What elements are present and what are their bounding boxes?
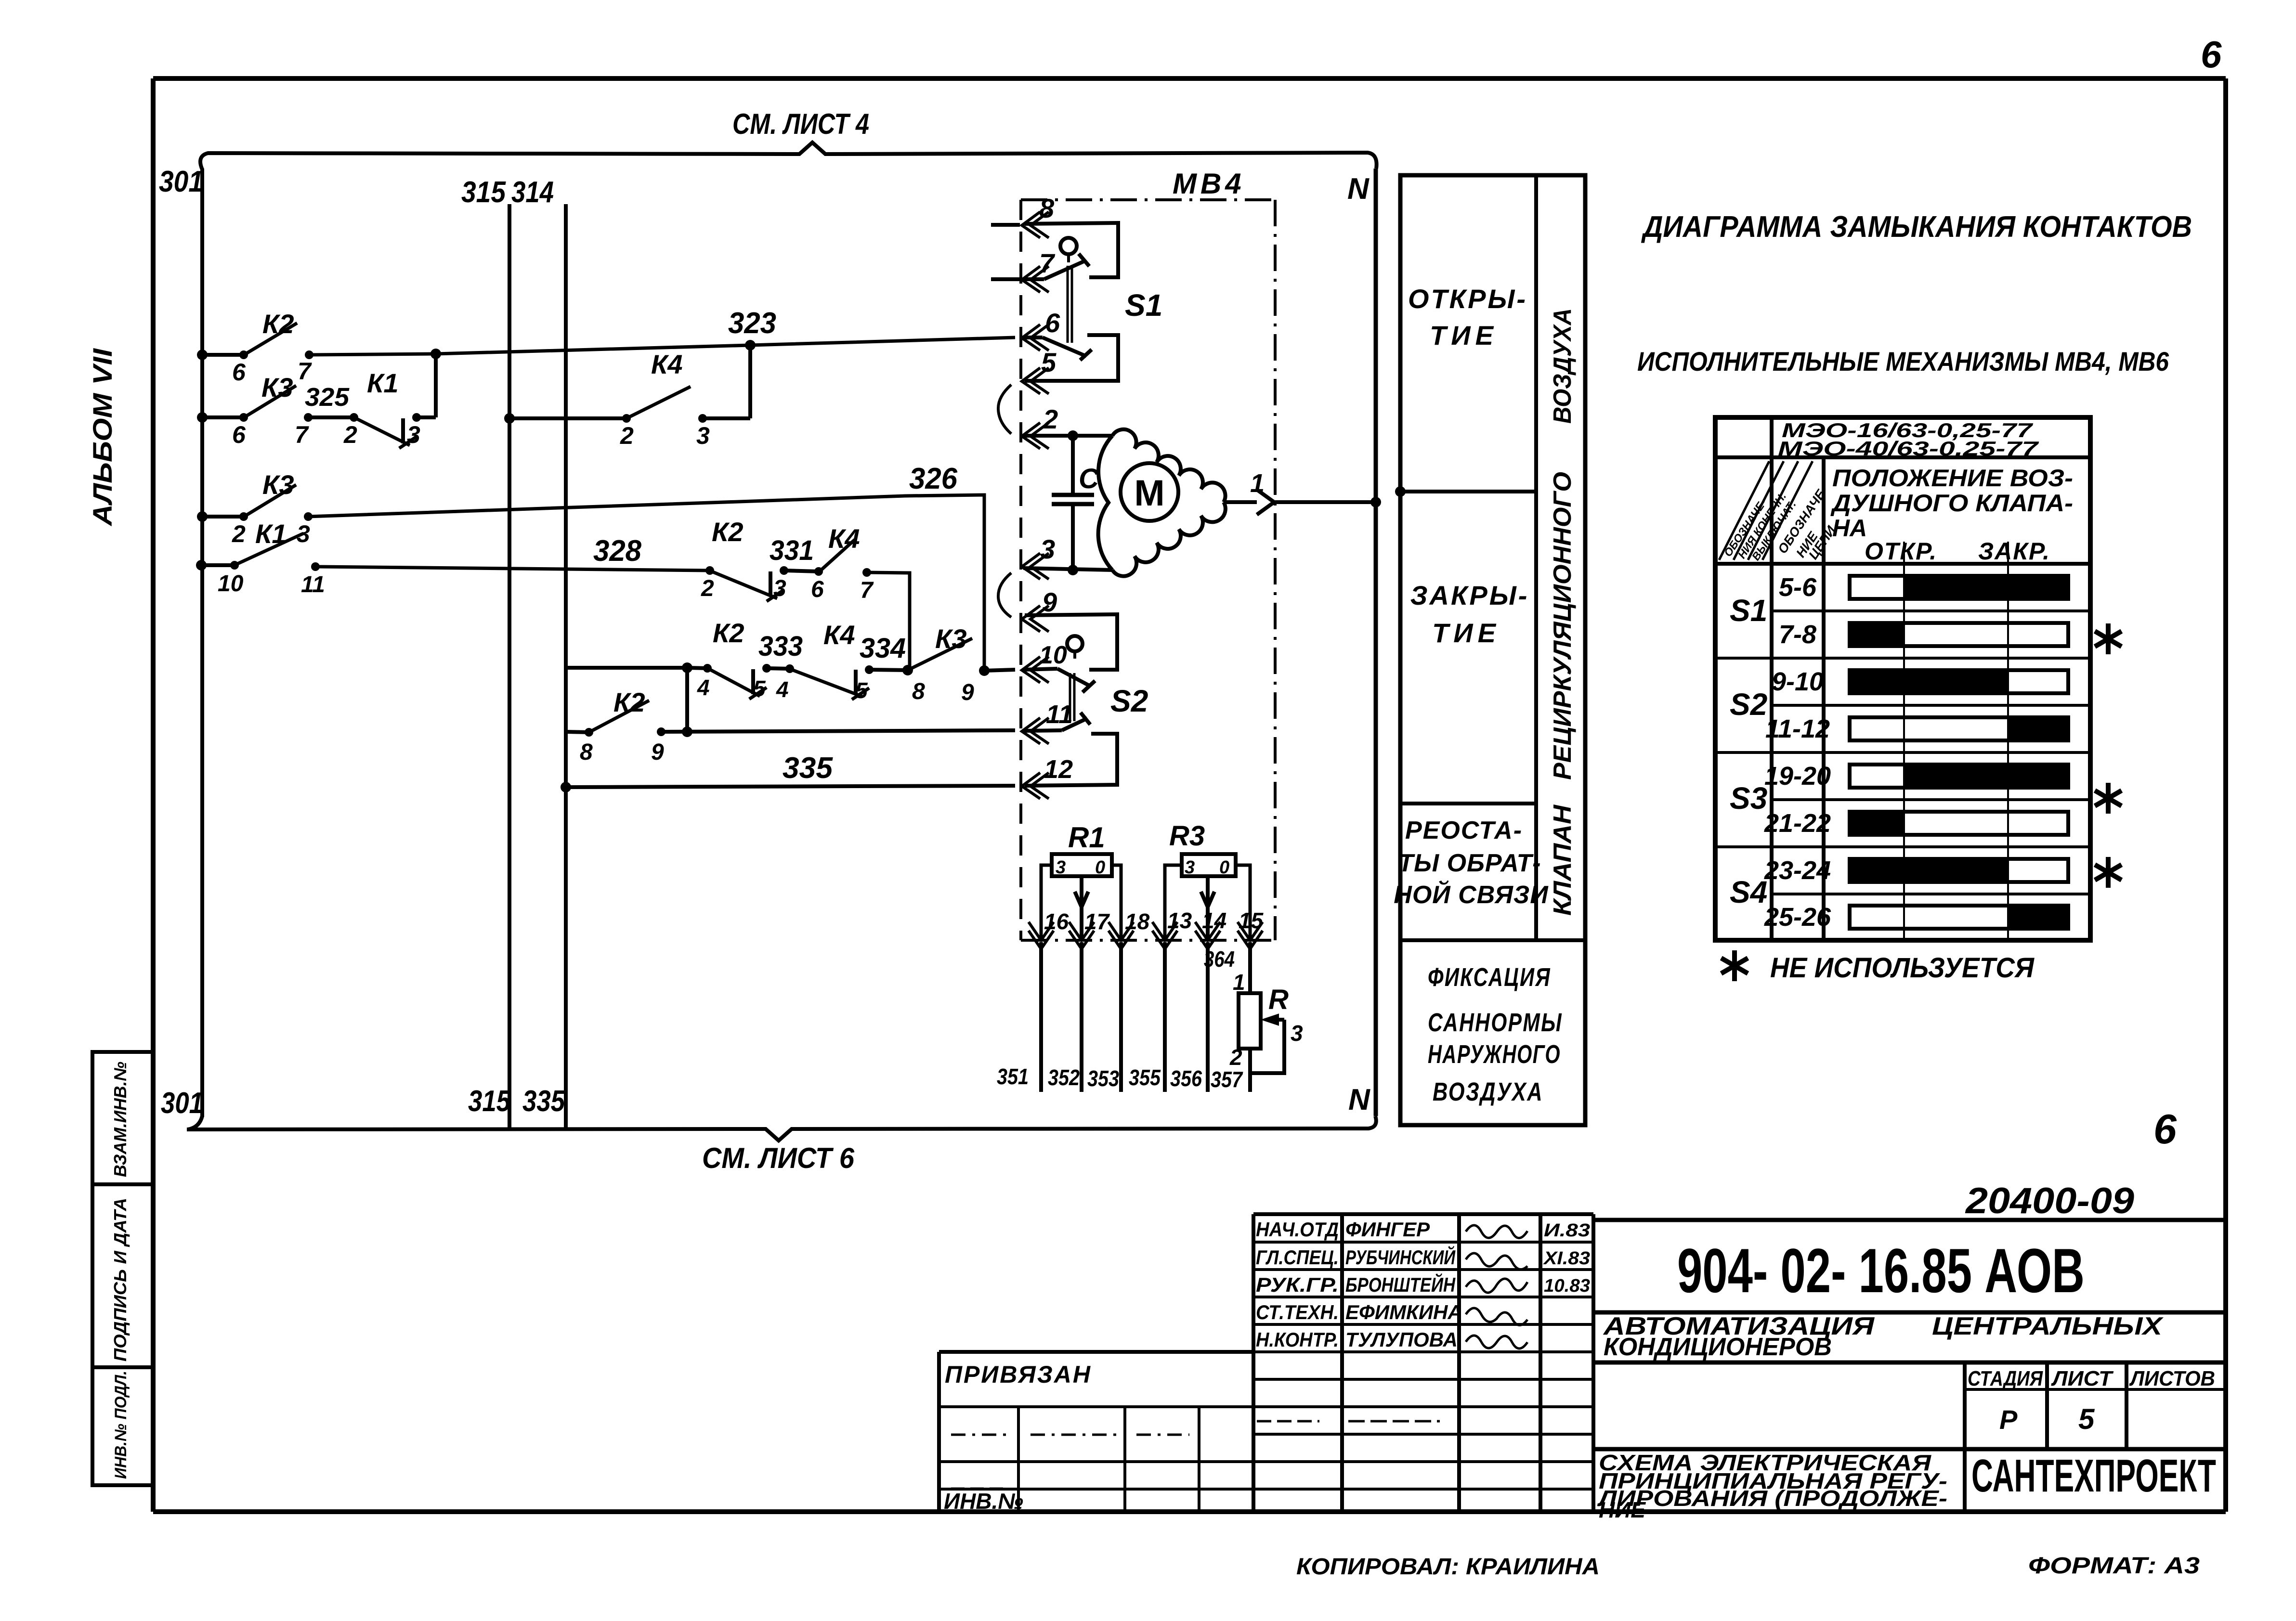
svg-text:СТАДИЯ: СТАДИЯ xyxy=(1968,1367,2043,1390)
svg-text:К4: К4 xyxy=(823,620,855,650)
svg-text:МЭО-40/63-0,25-77: МЭО-40/63-0,25-77 xyxy=(1778,437,2039,460)
svg-text:301: 301 xyxy=(159,165,203,198)
svg-text:355: 355 xyxy=(1129,1065,1161,1090)
svg-text:НОЙ СВЯЗИ: НОЙ СВЯЗИ xyxy=(1394,880,1549,909)
svg-text:315: 315 xyxy=(468,1085,511,1118)
svg-text:S2: S2 xyxy=(1730,687,1767,722)
svg-text:S2: S2 xyxy=(1110,684,1148,718)
svg-text:ЛИСТОВ: ЛИСТОВ xyxy=(2129,1367,2215,1390)
svg-text:8: 8 xyxy=(912,679,925,704)
svg-text:5: 5 xyxy=(753,676,766,701)
svg-text:25-26: 25-26 xyxy=(1764,903,1831,932)
svg-text:6: 6 xyxy=(1045,308,1060,338)
svg-text:САННОРМЫ: САННОРМЫ xyxy=(1428,1008,1563,1037)
svg-text:РЕЦИРКУЛЯЦИОННОГО: РЕЦИРКУЛЯЦИОННОГО xyxy=(1549,472,1577,780)
svg-text:23-24: 23-24 xyxy=(1764,856,1831,885)
svg-text:5: 5 xyxy=(2078,1403,2095,1435)
svg-text:СМ. ЛИСТ 6: СМ. ЛИСТ 6 xyxy=(702,1142,855,1174)
svg-text:13: 13 xyxy=(1167,908,1192,933)
svg-text:КЛАПАН: КЛАПАН xyxy=(1549,804,1577,916)
svg-text:3: 3 xyxy=(407,421,420,448)
svg-text:ОТКРЫ-: ОТКРЫ- xyxy=(1408,284,1527,314)
svg-text:С: С xyxy=(1079,463,1099,494)
svg-text:ПОДПИСЬ И ДАТА: ПОДПИСЬ И ДАТА xyxy=(110,1198,130,1362)
svg-text:2: 2 xyxy=(701,576,714,601)
svg-text:904- 02- 16.85 АОВ: 904- 02- 16.85 АОВ xyxy=(1677,1235,2085,1306)
svg-text:323: 323 xyxy=(728,307,776,340)
svg-text:17: 17 xyxy=(1084,909,1110,934)
svg-text:9: 9 xyxy=(961,680,974,705)
svg-text:САНТЕХПРОЕКТ: САНТЕХПРОЕКТ xyxy=(1971,1450,2216,1502)
svg-text:К4: К4 xyxy=(651,349,683,379)
svg-text:3: 3 xyxy=(1291,1021,1303,1046)
svg-text:S1: S1 xyxy=(1125,288,1162,323)
svg-text:ЦЕНТРАЛЬНЫХ: ЦЕНТРАЛЬНЫХ xyxy=(1932,1312,2164,1340)
svg-text:ТИЕ: ТИЕ xyxy=(1432,618,1500,648)
svg-text:18: 18 xyxy=(1125,909,1150,934)
svg-text:6: 6 xyxy=(2201,33,2222,76)
svg-text:ЗАКР.: ЗАКР. xyxy=(1978,538,2050,565)
svg-text:СМ. ЛИСТ 4: СМ. ЛИСТ 4 xyxy=(732,108,869,140)
svg-text:N: N xyxy=(1348,1083,1370,1116)
svg-text:19-20: 19-20 xyxy=(1764,762,1831,791)
svg-text:6: 6 xyxy=(811,577,824,602)
svg-text:N: N xyxy=(1347,172,1370,206)
svg-text:301: 301 xyxy=(161,1087,203,1120)
svg-text:21-22: 21-22 xyxy=(1764,809,1831,838)
svg-text:ВОЗДУХА: ВОЗДУХА xyxy=(1433,1077,1543,1106)
svg-text:7: 7 xyxy=(860,578,874,603)
svg-text:335: 335 xyxy=(522,1085,565,1118)
svg-text:НЕ ИСПОЛЬЗУЕТСЯ: НЕ ИСПОЛЬЗУЕТСЯ xyxy=(1770,952,2035,984)
svg-text:351: 351 xyxy=(997,1064,1029,1089)
svg-text:S3: S3 xyxy=(1730,781,1767,816)
svg-text:ФИКСАЦИЯ: ФИКСАЦИЯ xyxy=(1428,963,1551,992)
svg-text:НА: НА xyxy=(1832,515,1867,542)
svg-text:364: 364 xyxy=(1204,947,1235,972)
svg-text:ЗАКРЫ-: ЗАКРЫ- xyxy=(1410,580,1529,610)
svg-text:10: 10 xyxy=(218,571,244,597)
svg-text:РЕОСТА-: РЕОСТА- xyxy=(1405,817,1523,844)
svg-text:Н.КОНТР.: Н.КОНТР. xyxy=(1256,1328,1339,1351)
svg-text:2: 2 xyxy=(232,520,246,547)
svg-text:3: 3 xyxy=(773,576,786,601)
svg-text:4: 4 xyxy=(697,675,710,700)
svg-text:331: 331 xyxy=(770,535,814,566)
svg-text:БРОНШТЕЙН: БРОНШТЕЙН xyxy=(1345,1272,1456,1296)
svg-text:К2: К2 xyxy=(262,309,294,339)
svg-text:ДУШНОГО КЛАПА-: ДУШНОГО КЛАПА- xyxy=(1830,490,2073,517)
svg-text:РУК.ГР.: РУК.ГР. xyxy=(1256,1273,1339,1296)
svg-text:КОНДИЦИОНЕРОВ: КОНДИЦИОНЕРОВ xyxy=(1604,1333,1832,1361)
svg-text:XI.83: XI.83 xyxy=(1543,1248,1590,1269)
svg-text:Р: Р xyxy=(1999,1404,2018,1435)
svg-text:335: 335 xyxy=(783,752,834,785)
svg-text:7: 7 xyxy=(298,358,312,385)
svg-text:К1: К1 xyxy=(255,519,287,549)
svg-text:357: 357 xyxy=(1211,1067,1243,1092)
svg-text:325: 325 xyxy=(305,383,350,412)
svg-text:ПРИВЯЗАН: ПРИВЯЗАН xyxy=(945,1361,1092,1388)
svg-text:К3: К3 xyxy=(262,469,294,500)
svg-text:НАРУЖНОГО: НАРУЖНОГО xyxy=(1428,1040,1561,1069)
svg-text:R1: R1 xyxy=(1068,821,1105,854)
svg-text:6: 6 xyxy=(232,359,246,386)
svg-text:5-6: 5-6 xyxy=(1779,573,1817,602)
svg-text:ВОЗДУХА: ВОЗДУХА xyxy=(1549,308,1577,424)
svg-text:0: 0 xyxy=(1219,857,1229,878)
svg-text:2: 2 xyxy=(620,422,634,449)
svg-text:К4: К4 xyxy=(828,523,860,554)
svg-text:ГЛ.СПЕЦ.: ГЛ.СПЕЦ. xyxy=(1256,1246,1339,1269)
svg-text:R: R xyxy=(1268,984,1289,1015)
svg-text:ИНВ.№: ИНВ.№ xyxy=(944,1489,1023,1514)
svg-text:314: 314 xyxy=(511,176,554,209)
svg-text:2: 2 xyxy=(1229,1045,1242,1070)
svg-text:12: 12 xyxy=(1044,755,1073,784)
svg-text:S4: S4 xyxy=(1730,875,1767,909)
svg-text:6: 6 xyxy=(2153,1106,2177,1153)
svg-text:352: 352 xyxy=(1048,1065,1080,1090)
svg-text:НИЕ: НИЕ xyxy=(1599,1497,1646,1522)
svg-text:ТИЕ: ТИЕ xyxy=(1430,320,1498,350)
svg-text:353: 353 xyxy=(1087,1066,1119,1091)
svg-text:R3: R3 xyxy=(1169,820,1205,852)
svg-text:9-10: 9-10 xyxy=(1772,667,1824,696)
svg-text:10: 10 xyxy=(1039,641,1067,669)
svg-text:СТ.ТЕХН.: СТ.ТЕХН. xyxy=(1256,1301,1339,1323)
svg-text:ФИНГЕР: ФИНГЕР xyxy=(1345,1218,1430,1241)
svg-text:АЛЬБОМ VII: АЛЬБОМ VII xyxy=(87,348,117,527)
svg-text:НАЧ.ОТД: НАЧ.ОТД xyxy=(1256,1218,1339,1241)
svg-text:ЛИСТ: ЛИСТ xyxy=(2051,1367,2113,1390)
svg-text:КОПИРОВАЛ: КРАИЛИНА: КОПИРОВАЛ: КРАИЛИНА xyxy=(1296,1554,1600,1580)
svg-text:8: 8 xyxy=(1039,193,1055,223)
svg-text:И.83: И.83 xyxy=(1544,1220,1590,1241)
svg-text:3: 3 xyxy=(1185,857,1195,878)
svg-text:1: 1 xyxy=(1250,469,1265,498)
svg-text:15: 15 xyxy=(1239,908,1264,933)
svg-text:3: 3 xyxy=(1056,857,1066,878)
svg-text:ТУЛУПОВА: ТУЛУПОВА xyxy=(1345,1328,1458,1351)
svg-text:333: 333 xyxy=(758,631,803,662)
svg-text:2: 2 xyxy=(1043,404,1058,434)
svg-text:2: 2 xyxy=(343,421,357,448)
svg-text:1: 1 xyxy=(1233,970,1245,995)
svg-text:0: 0 xyxy=(1095,857,1105,878)
svg-text:7: 7 xyxy=(295,421,309,448)
svg-text:334: 334 xyxy=(860,633,906,664)
svg-text:4: 4 xyxy=(776,677,789,702)
svg-text:К3: К3 xyxy=(261,372,293,402)
svg-text:ИНВ.№ ПОДЛ.: ИНВ.№ ПОДЛ. xyxy=(112,1371,130,1479)
svg-text:6: 6 xyxy=(232,421,246,448)
svg-text:5: 5 xyxy=(855,678,868,703)
svg-text:К2: К2 xyxy=(712,517,744,547)
svg-text:3: 3 xyxy=(696,422,710,449)
svg-text:ВЗАМ.ИНВ.№: ВЗАМ.ИНВ.№ xyxy=(110,1062,130,1177)
svg-text:8: 8 xyxy=(580,739,593,765)
svg-text:16: 16 xyxy=(1044,909,1069,934)
svg-text:ФОРМАТ: А3: ФОРМАТ: А3 xyxy=(2028,1553,2200,1579)
svg-text:356: 356 xyxy=(1170,1066,1202,1091)
svg-text:РУБЧИНСКИЙ: РУБЧИНСКИЙ xyxy=(1345,1245,1456,1269)
svg-text:К1: К1 xyxy=(367,368,399,398)
svg-text:ОТКР.: ОТКР. xyxy=(1865,538,1937,565)
svg-text:11-12: 11-12 xyxy=(1765,714,1830,743)
svg-text:11: 11 xyxy=(301,572,325,597)
svg-text:ЕФИМКИНА: ЕФИМКИНА xyxy=(1345,1301,1462,1323)
svg-text:3: 3 xyxy=(1040,534,1055,564)
svg-text:ПОЛОЖЕНИЕ ВОЗ-: ПОЛОЖЕНИЕ ВОЗ- xyxy=(1832,465,2073,492)
svg-text:К2: К2 xyxy=(613,687,645,717)
svg-text:МВ4: МВ4 xyxy=(1173,168,1245,200)
svg-text:ЛИРОВАНИЯ (ПРОДОЛЖЕ-: ЛИРОВАНИЯ (ПРОДОЛЖЕ- xyxy=(1597,1486,1947,1511)
svg-text:328: 328 xyxy=(593,534,641,568)
svg-text:9: 9 xyxy=(1042,587,1057,617)
svg-text:ТЫ ОБРАТ-: ТЫ ОБРАТ- xyxy=(1398,849,1541,877)
svg-text:326: 326 xyxy=(909,462,957,495)
svg-text:20400-09: 20400-09 xyxy=(1965,1180,2134,1221)
svg-text:10.83: 10.83 xyxy=(1544,1276,1590,1296)
svg-text:ИСПОЛНИТЕЛЬНЫЕ МЕХАНИЗМЫ МВ4,: ИСПОЛНИТЕЛЬНЫЕ МЕХАНИЗМЫ МВ4, МВ6 xyxy=(1637,346,2169,376)
svg-text:7-8: 7-8 xyxy=(1779,620,1816,649)
svg-text:К3: К3 xyxy=(935,623,967,654)
svg-text:9: 9 xyxy=(651,739,664,765)
svg-text:5: 5 xyxy=(1041,347,1057,377)
svg-text:М: М xyxy=(1134,473,1164,514)
svg-text:ДИАГРАММА ЗАМЫКАНИЯ КОНТАКТО: ДИАГРАММА ЗАМЫКАНИЯ КОНТАКТОВ xyxy=(1641,210,2192,244)
svg-text:К2: К2 xyxy=(713,618,744,648)
svg-text:14: 14 xyxy=(1202,908,1226,933)
svg-text:315: 315 xyxy=(461,176,506,209)
svg-text:S1: S1 xyxy=(1730,593,1767,628)
